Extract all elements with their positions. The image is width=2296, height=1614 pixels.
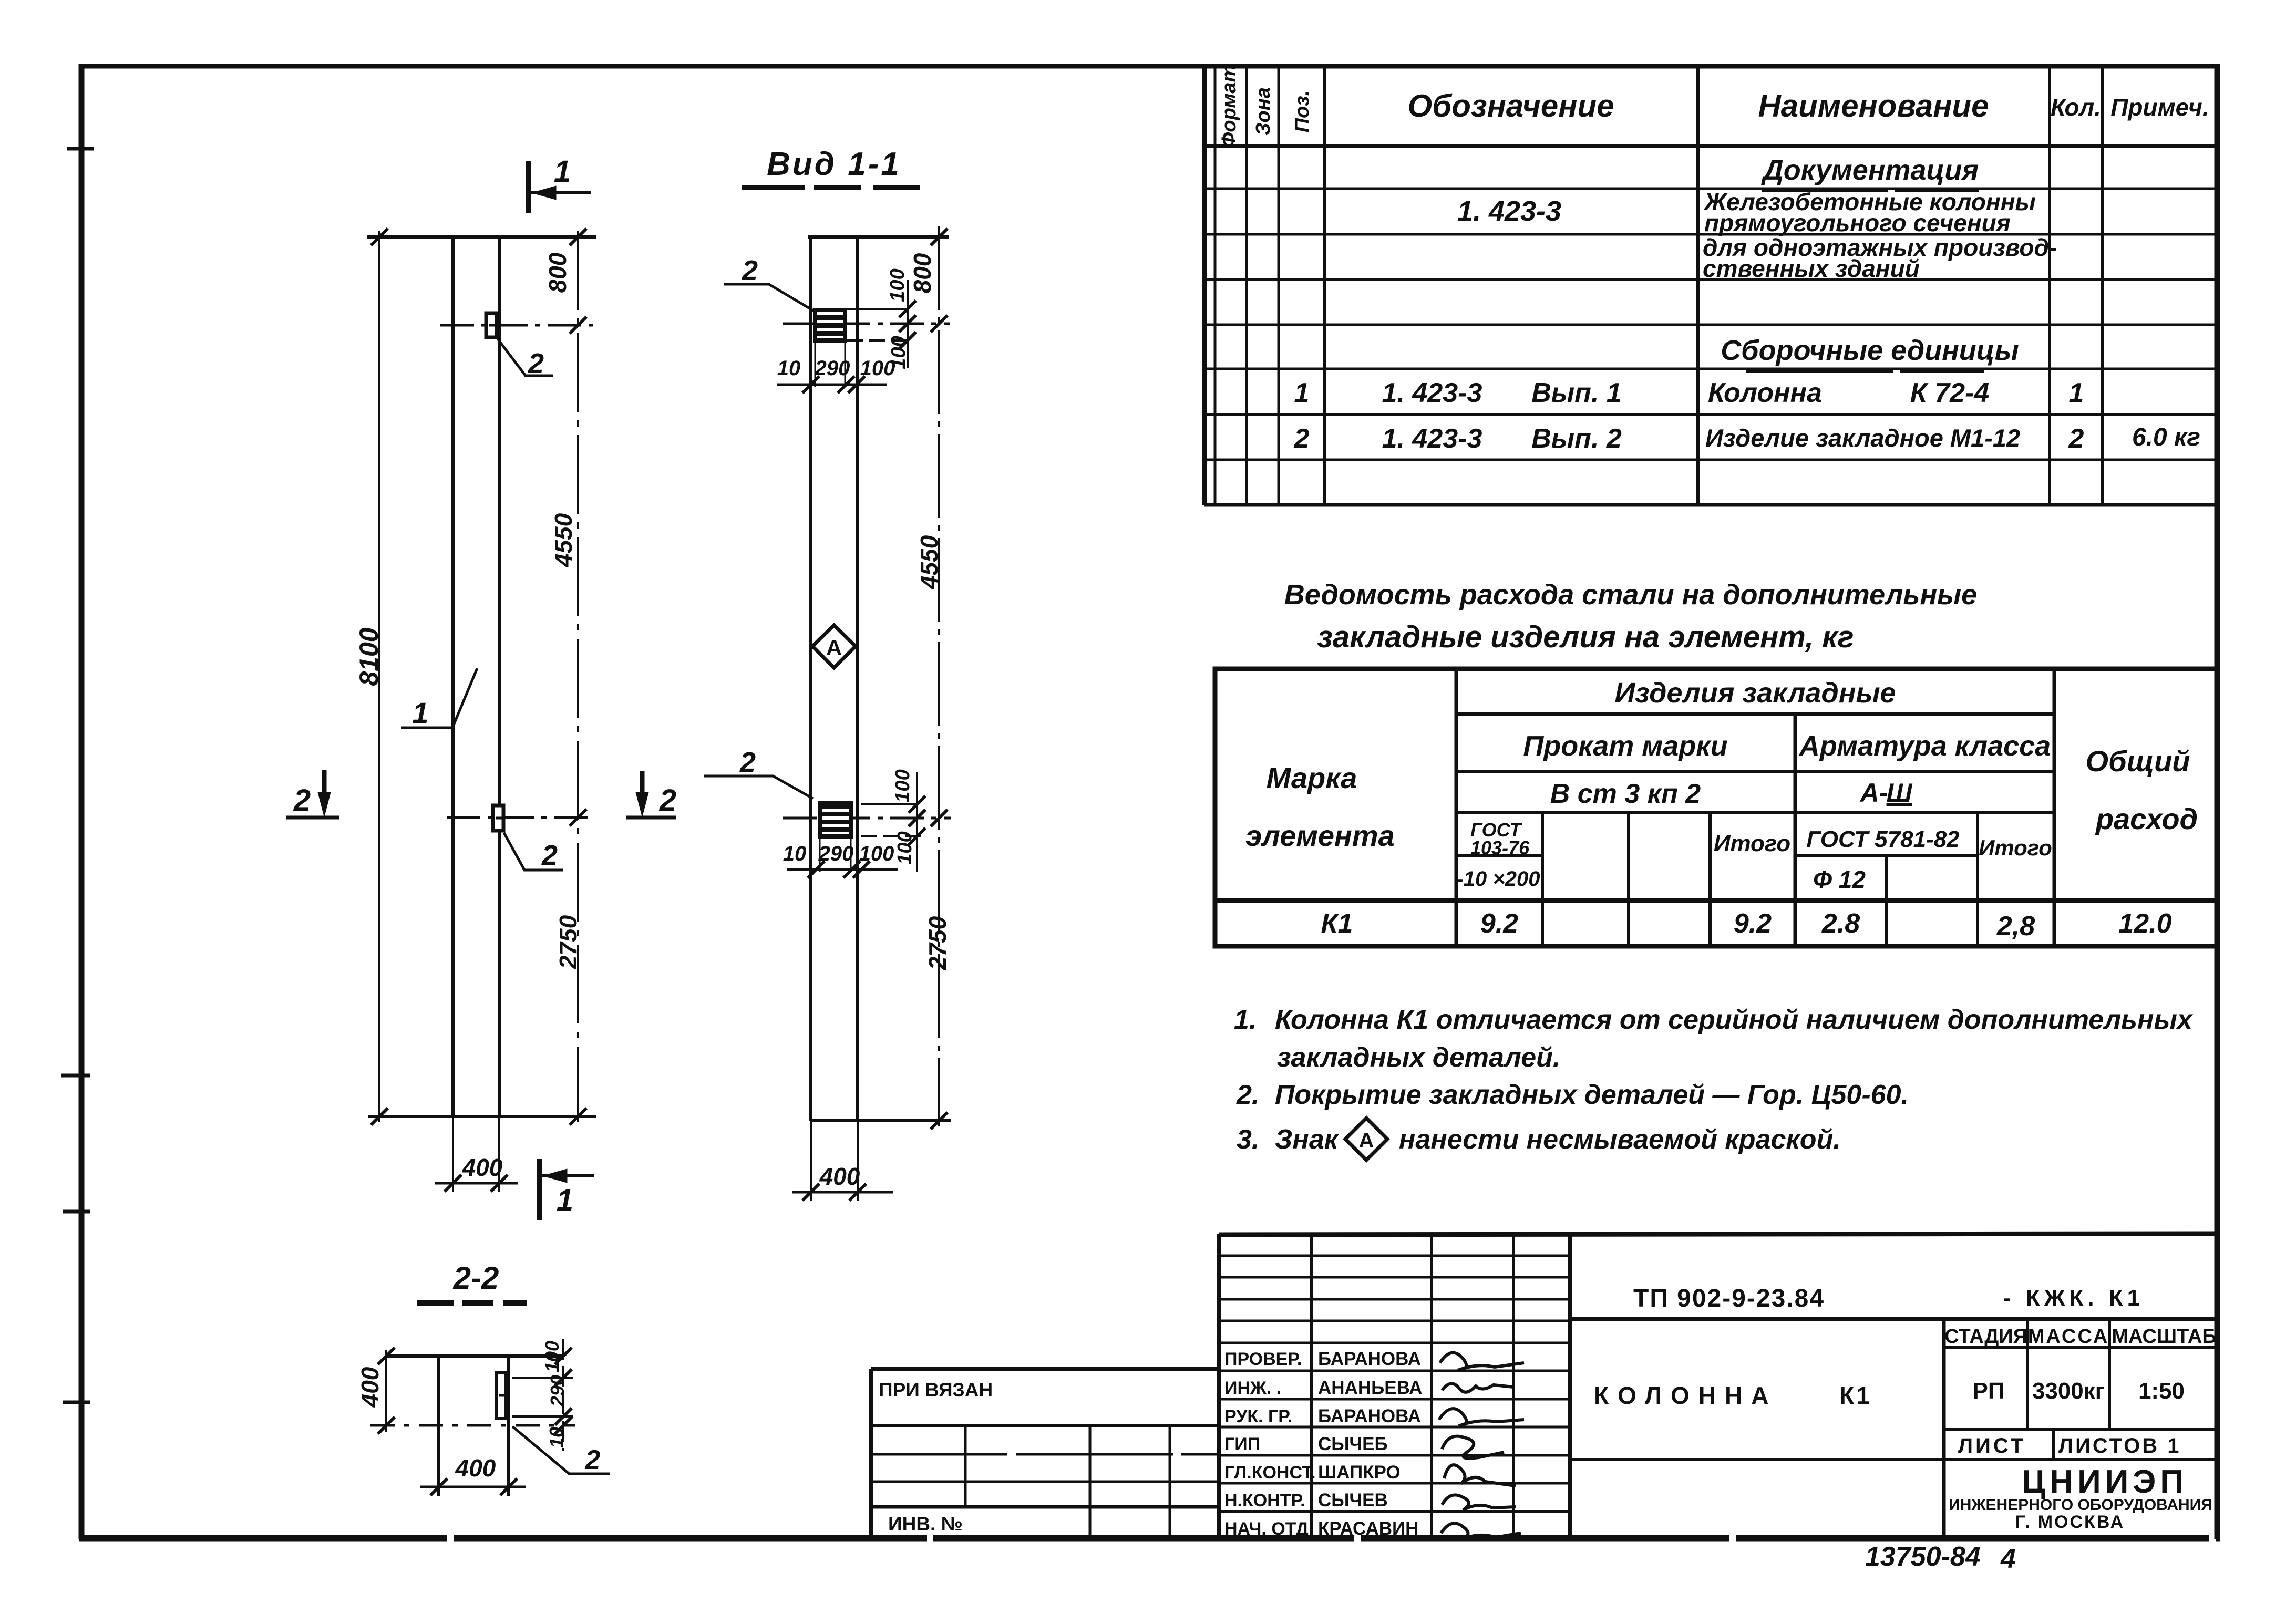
leader and label 2 (upper plate, side view) bbox=[724, 284, 814, 311]
svg-text:ЛИСТОВ 1: ЛИСТОВ 1 bbox=[2058, 1434, 2181, 1457]
svg-text:Ш: Ш bbox=[1887, 778, 1913, 808]
sheet row ЛИСТ / ЛИСТОВ 1 bbox=[2052, 1430, 2055, 1460]
svg-text:1: 1 bbox=[557, 1183, 573, 1217]
specification header Зона bbox=[1252, 87, 1274, 136]
leader and label 2 (upper plate, front view) bbox=[498, 339, 553, 376]
stage/mass/scale section bbox=[1944, 1319, 2217, 1539]
extension lines from lower plate edges bbox=[820, 836, 851, 872]
svg-text:ЦНИИЭП: ЦНИИЭП bbox=[2022, 1464, 2188, 1500]
svg-text:Примеч.: Примеч. bbox=[2110, 94, 2209, 121]
right dimension line of front view (800/4550/2750) bbox=[570, 229, 586, 1125]
svg-text:10: 10 bbox=[783, 842, 807, 865]
svg-text:- КЖК. К1: - КЖК. К1 bbox=[2003, 1285, 2144, 1311]
svg-text:290: 290 bbox=[815, 357, 850, 380]
svg-text:2: 2 bbox=[528, 348, 544, 379]
svg-text:ственных зданий: ственных зданий bbox=[1703, 255, 1920, 282]
svg-text:100: 100 bbox=[894, 831, 916, 864]
svg-text:расход: расход bbox=[2095, 802, 2198, 835]
svg-text:100: 100 bbox=[860, 357, 895, 380]
svg-text:4550: 4550 bbox=[915, 535, 943, 589]
svg-text:ИНЖЕНЕРНОГО ОБОРУДОВАНИЯ: ИНЖЕНЕРНОГО ОБОРУДОВАНИЯ bbox=[1949, 1496, 2212, 1514]
extension lines from upper plate edges bbox=[815, 340, 845, 387]
svg-text:100: 100 bbox=[541, 1341, 563, 1372]
label 800 (front view) bbox=[544, 252, 571, 293]
label 2750 (front view) bbox=[554, 915, 582, 969]
leader and label 2 (lower plate, front view) bbox=[504, 833, 563, 870]
svg-text:2: 2 bbox=[742, 255, 758, 286]
svg-text:ПРИ ВЯЗАН: ПРИ ВЯЗАН bbox=[879, 1379, 993, 1401]
svg-text:К1: К1 bbox=[1321, 908, 1353, 939]
svg-text:ШАПКРО: ШАПКРО bbox=[1318, 1462, 1401, 1483]
embedded plate M1-12 lower (front view, edge) bbox=[493, 805, 503, 831]
svg-text:Изделия закладные: Изделия закладные bbox=[1614, 677, 1896, 709]
svg-text:МАСШТАБ: МАСШТАБ bbox=[2112, 1326, 2216, 1348]
svg-text:Покрытие закладных деталей —: Покрытие закладных деталей — Гор. Ц50-60… bbox=[1275, 1080, 1909, 1110]
svg-text:Изделие закладное М1-12: Изделие закладное М1-12 bbox=[1705, 424, 2020, 452]
svg-text:103-76: 103-76 bbox=[1470, 837, 1530, 858]
svg-text:Обозначение: Обозначение bbox=[1407, 88, 1614, 123]
svg-text:Зона: Зона bbox=[1252, 87, 1274, 136]
svg-text:4: 4 bbox=[2000, 1544, 2016, 1574]
top extension and dimension line of front view bbox=[367, 237, 596, 1116]
svg-text:КРАСАВИН: КРАСАВИН bbox=[1318, 1518, 1418, 1539]
svg-text:2: 2 bbox=[585, 1445, 601, 1475]
svg-text:Ведомость расхода стали на: Ведомость расхода стали на дополнительны… bbox=[1284, 579, 1977, 611]
svg-text:НАЧ. ОТД: НАЧ. ОТД bbox=[1224, 1519, 1309, 1539]
dimension 400 left of section 2-2 bbox=[378, 1348, 395, 1434]
svg-text:Итого: Итого bbox=[1979, 835, 2052, 860]
svg-text:2-2: 2-2 bbox=[453, 1260, 499, 1296]
svg-text:9.2: 9.2 bbox=[1734, 908, 1772, 939]
svg-text:В ст 3 кп 2: В ст 3 кп 2 bbox=[1550, 779, 1701, 809]
svg-text:Ф 12: Ф 12 bbox=[1813, 866, 1866, 893]
mark diamond A bbox=[812, 625, 856, 668]
svg-text:6.0 кг: 6.0 кг bbox=[2132, 423, 2200, 451]
sub-dimensions 100/100 at lower plate bbox=[861, 772, 925, 872]
svg-text:2: 2 bbox=[2068, 423, 2084, 454]
svg-text:ИНВ. №: ИНВ. № bbox=[888, 1513, 963, 1535]
svg-text:2750: 2750 bbox=[924, 916, 951, 970]
svg-text:8100: 8100 bbox=[354, 627, 384, 686]
signature table person names bbox=[1318, 1349, 1422, 1539]
svg-text:400: 400 bbox=[462, 1154, 503, 1181]
svg-text:РП: РП bbox=[1973, 1378, 2005, 1404]
document number cell ТП 902-9-23.84 / КЖК К1 bbox=[1570, 1317, 2217, 1321]
svg-text:100: 100 bbox=[887, 268, 909, 302]
label 8100 bbox=[354, 627, 384, 686]
svg-text:СТАДИЯ: СТАДИЯ bbox=[1944, 1326, 2027, 1348]
svg-text:КОЛОННА: КОЛОННА bbox=[1594, 1382, 1777, 1409]
svg-text:Итого: Итого bbox=[1714, 831, 1790, 856]
svg-text:элемента: элемента bbox=[1245, 819, 1394, 852]
axis line upper (side view) bbox=[783, 323, 950, 325]
specification header Поз. bbox=[1291, 90, 1313, 133]
svg-text:А: А bbox=[826, 635, 842, 660]
sub-dimensions 100/100 at upper plate bbox=[847, 280, 916, 368]
svg-text:290: 290 bbox=[547, 1375, 568, 1407]
svg-text:1: 1 bbox=[412, 696, 428, 729]
svg-text:2: 2 bbox=[659, 783, 676, 818]
svg-text:2.: 2. bbox=[1236, 1080, 1259, 1110]
svg-text:СЫЧЕБ: СЫЧЕБ bbox=[1318, 1434, 1388, 1454]
dimension 400 bottom (front view) bbox=[435, 1116, 518, 1192]
svg-text:Формат: Формат bbox=[1218, 65, 1240, 148]
drawing title КОЛОННА К1 bbox=[1570, 1458, 1944, 1461]
svg-text:Вып. 1: Вып. 1 bbox=[1531, 378, 1622, 408]
svg-text:400: 400 bbox=[819, 1163, 860, 1190]
svg-text:закладных деталей.: закладных деталей. bbox=[1277, 1042, 1560, 1073]
svg-text:ТП 902-9-23.84: ТП 902-9-23.84 bbox=[1633, 1285, 1825, 1312]
embedded plate M1-12 upper (front view, edge) bbox=[486, 313, 497, 337]
svg-text:нанести несмываемой краской.: нанести несмываемой краской. bbox=[1399, 1124, 1841, 1155]
signatures (handwritten squiggles) bbox=[1439, 1353, 1524, 1539]
note 3 diamond A bbox=[1345, 1118, 1387, 1160]
svg-text:400: 400 bbox=[455, 1454, 496, 1482]
steel consumption table grid bbox=[1215, 669, 2217, 946]
leader and label 1 (column K1) bbox=[401, 668, 477, 728]
dimensions 100/290/10 right of section 2-2 bbox=[512, 1339, 573, 1451]
svg-text:Кол.: Кол. bbox=[2051, 94, 2101, 121]
svg-text:К1: К1 bbox=[1839, 1382, 1872, 1409]
svg-text:1. 423-3: 1. 423-3 bbox=[1457, 195, 1561, 227]
label 800 (side view) bbox=[909, 253, 936, 293]
svg-text:1: 1 bbox=[2069, 378, 2084, 408]
svg-text:800: 800 bbox=[544, 252, 571, 293]
label 4550 (front view) bbox=[550, 513, 577, 567]
label 2750 (side view) bbox=[924, 916, 951, 970]
svg-text:Вид 1-1: Вид 1-1 bbox=[767, 146, 901, 182]
svg-text:Прокат марки: Прокат марки bbox=[1523, 730, 1727, 762]
svg-text:1: 1 bbox=[1294, 378, 1310, 408]
svg-text:АНАНЬЕВА: АНАНЬЕВА bbox=[1318, 1378, 1422, 1398]
section mark 1 top bbox=[529, 161, 591, 213]
section 2-2 axis dashed bottom bbox=[370, 1424, 575, 1427]
svg-text:СЫЧЕВ: СЫЧЕВ bbox=[1318, 1490, 1388, 1510]
embedded plate M1-12 upper (hatched) bbox=[815, 310, 845, 340]
svg-text:13750-84: 13750-84 bbox=[1865, 1541, 1981, 1572]
axis line lower (front view) bbox=[447, 816, 593, 819]
svg-text:ИНЖ. .: ИНЖ. . bbox=[1224, 1378, 1281, 1398]
section mark 1 bottom bbox=[540, 1159, 594, 1220]
svg-text:ЛИСТ: ЛИСТ bbox=[1958, 1434, 2026, 1457]
svg-text:2: 2 bbox=[541, 840, 558, 871]
svg-text:закладные изделия на элемен: закладные изделия на элемент, кг bbox=[1317, 620, 1854, 654]
svg-text:400: 400 bbox=[356, 1367, 384, 1408]
right dimension line of side view (800/4550/2750) bbox=[931, 226, 948, 1129]
section 2-2 column square bbox=[386, 1356, 562, 1496]
svg-text:3300кг: 3300кг bbox=[2032, 1378, 2105, 1404]
svg-text:Знак: Знак bbox=[1275, 1124, 1340, 1155]
svg-text:100: 100 bbox=[892, 769, 914, 802]
section mark 2 middle bbox=[626, 771, 676, 818]
svg-text:Арматура класса: Арматура класса bbox=[1798, 730, 2051, 762]
svg-text:9.2: 9.2 bbox=[1480, 908, 1518, 939]
svg-text:МАССА: МАССА bbox=[2028, 1326, 2109, 1348]
svg-text:ГОСТ 5781-82: ГОСТ 5781-82 bbox=[1806, 826, 1960, 852]
embedded plate in section 2-2 bbox=[496, 1373, 506, 1419]
svg-text:Вып. 2: Вып. 2 bbox=[1531, 423, 1622, 454]
svg-text:2.8: 2.8 bbox=[1821, 908, 1860, 939]
svg-text:Документация: Документация bbox=[1761, 154, 1979, 186]
svg-text:1.: 1. bbox=[1234, 1005, 1257, 1035]
svg-text:12.0: 12.0 bbox=[2118, 908, 2171, 939]
svg-text:Марка: Марка bbox=[1267, 761, 1357, 794]
svg-text:100: 100 bbox=[859, 842, 894, 865]
svg-text:РУК. ГР.: РУК. ГР. bbox=[1224, 1406, 1292, 1426]
dimension 400 bottom (side view) bbox=[792, 1121, 893, 1201]
svg-text:К 72-4: К 72-4 bbox=[1910, 378, 1990, 408]
specification header Формат bbox=[1218, 65, 1240, 148]
svg-text:А-: А- bbox=[1859, 778, 1888, 808]
column K1 front view outline bbox=[453, 237, 499, 1116]
leader and label 2 (section 2-2 plate) bbox=[512, 1426, 610, 1474]
svg-text:Н.КОНТР.: Н.КОНТР. bbox=[1224, 1491, 1305, 1510]
svg-text:2: 2 bbox=[739, 747, 756, 778]
label 4550 (side view) bbox=[915, 535, 943, 589]
svg-text:прямоугольного сечения: прямоугольного сечения bbox=[1704, 209, 2011, 236]
svg-text:4550: 4550 bbox=[550, 513, 577, 567]
svg-text:1. 423-3: 1. 423-3 bbox=[1382, 423, 1482, 454]
svg-text:Колонна: Колонна bbox=[1708, 378, 1822, 408]
axis line upper (front view) bbox=[440, 324, 593, 327]
svg-text:1. 423-3: 1. 423-3 bbox=[1382, 378, 1482, 408]
svg-text:Г. МОСКВА: Г. МОСКВА bbox=[2015, 1512, 2125, 1532]
embedded plate M1-12 lower (hatched) bbox=[820, 803, 851, 836]
leader and label 2 (lower plate, side view) bbox=[704, 776, 813, 799]
svg-text:Поз.: Поз. bbox=[1291, 90, 1313, 133]
title block outer frame bbox=[1219, 1234, 2217, 1539]
fold tick marks on left border bbox=[61, 149, 94, 1402]
section mark 2 left bbox=[286, 770, 339, 818]
svg-text:Общий: Общий bbox=[2085, 744, 2190, 778]
svg-text:Колонна К1 отличается от с: Колонна К1 отличается от серийной наличи… bbox=[1275, 1005, 2194, 1035]
svg-text:2: 2 bbox=[293, 783, 311, 818]
svg-text:2750: 2750 bbox=[554, 915, 582, 969]
svg-text:-10 ×200: -10 ×200 bbox=[1456, 867, 1540, 891]
signature table role names bbox=[1224, 1349, 1316, 1539]
svg-text:ГИП: ГИП bbox=[1224, 1434, 1260, 1454]
svg-text:800: 800 bbox=[909, 253, 936, 293]
dimension line 8100 bbox=[371, 229, 388, 1125]
svg-text:3.: 3. bbox=[1237, 1124, 1259, 1155]
axis line lower (side view) bbox=[783, 817, 951, 820]
svg-text:10: 10 bbox=[777, 357, 801, 380]
dimension 400 bottom of section 2-2 bbox=[420, 1478, 526, 1495]
svg-text:БАРАНОВА: БАРАНОВА bbox=[1318, 1349, 1421, 1369]
svg-text:10: 10 bbox=[545, 1427, 567, 1448]
column K1 side view outline bbox=[808, 237, 951, 1121]
signature table grid bbox=[1219, 1234, 1570, 1539]
svg-text:Сборочные единицы: Сборочные единицы bbox=[1721, 335, 2019, 366]
svg-text:2: 2 bbox=[1294, 423, 1310, 454]
svg-text:А: А bbox=[1359, 1129, 1374, 1152]
svg-text:Наименование: Наименование bbox=[1758, 88, 1989, 123]
specification table grid bbox=[1204, 64, 2217, 505]
svg-text:2,8: 2,8 bbox=[1996, 911, 2035, 941]
svg-text:1: 1 bbox=[554, 154, 571, 189]
svg-text:ГЛ.КОНСТ.: ГЛ.КОНСТ. bbox=[1224, 1463, 1316, 1483]
left box ПРИВЯЗАН bbox=[871, 1369, 1219, 1538]
svg-text:БАРАНОВА: БАРАНОВА bbox=[1318, 1406, 1421, 1426]
svg-text:1:50: 1:50 bbox=[2138, 1378, 2185, 1404]
svg-text:ПРОВЕР.: ПРОВЕР. bbox=[1224, 1349, 1302, 1369]
